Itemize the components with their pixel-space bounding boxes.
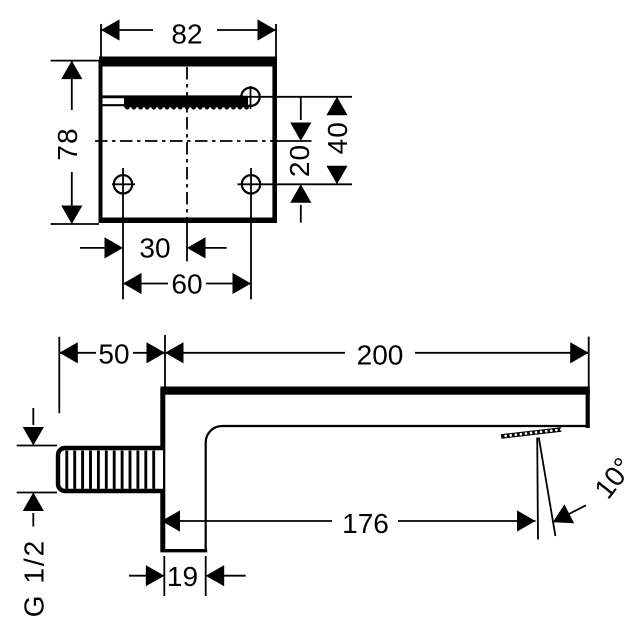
dimension 50: right arrow <box>147 342 166 363</box>
screw hole right horizontal tick / extension line for 40 <box>238 183 353 185</box>
dimension 78: extension line bottom <box>51 223 99 225</box>
svg-text:G 1/2: G 1/2 <box>19 539 50 617</box>
plate top edge (thick band) <box>99 57 277 67</box>
dimension 30: left tail with arrow pointing right <box>80 247 105 249</box>
extension line middle (shared ref 50/200) <box>164 335 166 387</box>
dimension 200: right arrow <box>570 342 589 363</box>
dimension 19: extension line right <box>205 556 207 596</box>
dimension G1/2: top arrow (points down) <box>23 427 44 446</box>
dimension 200: left arrow <box>165 342 184 363</box>
svg-text:50: 50 <box>98 339 129 370</box>
threaded connector pipe body <box>58 448 163 491</box>
vertical dash-dot centerline of plate <box>186 67 188 223</box>
outlet 10deg slanted line <box>539 438 556 537</box>
screw hole left horizontal tick <box>112 183 135 185</box>
dimension 30: right arrow pointing left with tail <box>187 237 206 258</box>
svg-text:20: 20 <box>284 144 315 177</box>
dimension 20: dimension line above <box>300 97 302 120</box>
svg-text:176: 176 <box>342 508 389 539</box>
extension line from aerator circle (top ref for 40) <box>243 96 352 98</box>
screw hole left <box>114 175 132 193</box>
dimension 40: upper arrow (points up) <box>326 97 347 116</box>
dimension 20: dimension line below <box>300 205 302 223</box>
dimension 82: dimension line <box>101 29 276 31</box>
dimension 176: dimension line <box>162 520 536 522</box>
dimension G1/2: bottom arrow (points up) <box>23 493 44 512</box>
outlet vertical reference line <box>536 438 539 540</box>
aerator outlet strip (10 deg) <box>501 427 563 439</box>
10deg leader arrow <box>548 496 591 532</box>
dimension 50: dimension line <box>59 352 165 354</box>
screw hole left vertical centerline <box>122 168 124 299</box>
dimension 78: bottom arrow <box>61 206 82 225</box>
dimension 60: right arrow <box>233 273 252 294</box>
svg-text:40: 40 <box>322 121 353 154</box>
dimension 82: extension line left <box>100 24 102 57</box>
dimension 82: left arrow <box>101 19 120 40</box>
spout right end edge <box>586 390 590 428</box>
dimension G1/2: extension line top <box>17 445 57 447</box>
dimension 20: lower arrow (points up) <box>290 184 311 203</box>
center tick through aerator circle <box>250 86 252 109</box>
svg-text:200: 200 <box>357 340 404 371</box>
dimension 176: right arrow <box>517 510 536 531</box>
extension of horizontal centerline (ref for 20) <box>277 140 312 142</box>
spout leg bottom edge <box>160 549 207 552</box>
dimension 60: left arrow <box>123 273 142 294</box>
aerator end circle top-right <box>241 88 259 106</box>
screw hole right vertical centerline <box>250 168 252 299</box>
extension line right (ref for 200) <box>588 337 590 388</box>
plate left edge <box>99 60 103 223</box>
horizontal dash-dot centerline of plate <box>95 140 277 142</box>
plate right edge <box>272 60 277 223</box>
svg-text:82: 82 <box>171 19 202 50</box>
plate bottom edge <box>99 218 277 224</box>
dimension 82: extension line right <box>275 24 277 57</box>
dimension 20: upper arrow (points down) <box>290 123 311 142</box>
dimension 176: left arrow <box>162 510 181 531</box>
spout vertical leg left edge <box>160 388 165 551</box>
dimension G1/2: dimension line above <box>32 408 34 425</box>
dimension 82: right arrow <box>258 19 277 40</box>
dimension 40: lower arrow (points down) <box>326 166 347 185</box>
dimension 78: dimension line <box>71 61 73 224</box>
pipe thread hatching <box>67 451 154 489</box>
aerator left inlet channel <box>103 104 125 106</box>
dimension 78: extension line top <box>51 60 99 62</box>
screw hole right <box>242 175 260 193</box>
dimension G1/2: extension line bottom <box>17 492 57 494</box>
dimension 200: dimension line <box>165 352 589 354</box>
dimension 19: extension line left <box>163 556 165 596</box>
dimension 78: top arrow <box>61 61 82 80</box>
aerator slot line across plate <box>101 95 243 98</box>
dimension 19: left tail with arrow pointing right <box>129 575 146 577</box>
dimension 60: dimension line <box>123 283 251 285</box>
svg-text:19: 19 <box>167 561 198 592</box>
aerator toothed bar <box>124 96 249 110</box>
extension line left (ref for 50) <box>58 337 60 414</box>
spout underside and inner corner radius <box>206 426 589 550</box>
dimension 50: left arrow <box>59 342 78 363</box>
svg-text:60: 60 <box>171 269 202 300</box>
dimension G1/2: dimension line below <box>32 513 34 527</box>
svg-text:78: 78 <box>52 127 83 160</box>
spout top edge (thick band) <box>161 387 590 395</box>
dimension 19: right arrow pointing left with tail <box>206 565 225 586</box>
svg-text:30: 30 <box>139 233 170 264</box>
